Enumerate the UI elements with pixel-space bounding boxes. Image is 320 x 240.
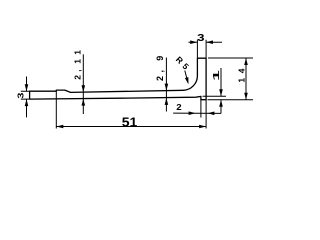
dimension 51 dimension line bbox=[56, 126, 206, 128]
dimension 2,9 dimension line bbox=[165, 58, 167, 112]
dimension 1 extension line (top of step) bbox=[203, 95, 227, 97]
dimension 3 (left) arrowheads bbox=[25, 84, 29, 91]
dimension 14 dimension line bbox=[245, 58, 247, 100]
dimension 3 (top) extension lines bbox=[197, 40, 206, 58]
dimension 3 (top) dimension line with tails bbox=[189, 41, 223, 43]
dimension 3 (left) dimension line bbox=[26, 77, 28, 118]
dimension 2 (bottom) arrowheads bbox=[189, 111, 196, 115]
radius R5 leader bbox=[185, 71, 188, 83]
svg-text:3: 3 bbox=[17, 93, 26, 99]
profile outline bbox=[30, 58, 207, 99]
dimension 3 (top) arrowheads bbox=[190, 40, 197, 44]
svg-text:2: 2 bbox=[176, 102, 181, 111]
dimension 51 arrowheads bbox=[56, 125, 63, 129]
dimension 14 extension lines bbox=[208, 58, 254, 100]
dimension 2 (bottom) extension lines bbox=[201, 100, 206, 129]
dimension 51 extension line (left, through bar) bbox=[55, 90, 57, 128]
dimension 3 (left) extension lines bbox=[21, 91, 30, 99]
dimension 1 arrowheads bbox=[219, 89, 223, 96]
svg-text:3: 3 bbox=[197, 31, 205, 43]
svg-text:51: 51 bbox=[122, 115, 138, 129]
radius R5 arrowhead bbox=[185, 77, 188, 84]
dimension 2,9 arrowheads bbox=[165, 84, 169, 91]
svg-text:1: 1 bbox=[213, 70, 222, 81]
dimension 2,11 dimension line bbox=[82, 54, 84, 114]
dimension 14 arrowheads bbox=[244, 58, 248, 65]
dimension 2,11 arrowheads bbox=[82, 85, 86, 92]
dimension 1 dimension line bbox=[220, 68, 222, 113]
dimension 2 (bottom) dimension line bbox=[173, 112, 221, 114]
